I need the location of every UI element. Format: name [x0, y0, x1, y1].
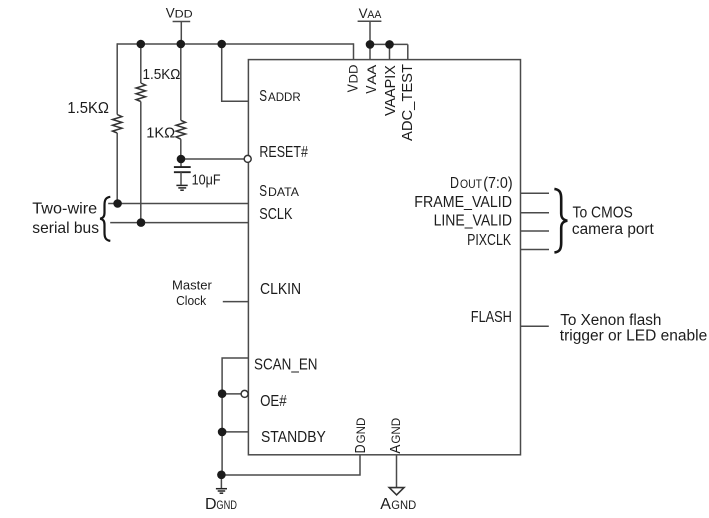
- svg-text:D: D: [450, 175, 459, 192]
- brace two-wire serial bus: [100, 197, 110, 241]
- svg-text:D: D: [352, 444, 369, 453]
- svg-text:SCLK: SCLK: [259, 206, 293, 223]
- power symbol VDD: [173, 22, 191, 45]
- net label AGND: [380, 496, 416, 513]
- svg-text:ADC_TEST: ADC_TEST: [399, 64, 416, 141]
- svg-text:GND: GND: [356, 418, 368, 444]
- wire VAA bus: [370, 43, 408, 45]
- junction dot VAA bus / VAAPIX pin: [385, 40, 394, 49]
- svg-text:STANDBY: STANDBY: [261, 429, 326, 446]
- junction dot VDD bus / R2: [137, 40, 146, 49]
- junction dot SCLK / R2: [137, 218, 146, 227]
- svg-text:Two-wire: Two-wire: [32, 201, 97, 218]
- power symbol VAA: [358, 21, 382, 44]
- resistor R2 1.5Kohm: [136, 44, 145, 223]
- junction dot VDD bus / SADDR drop: [217, 40, 226, 49]
- svg-text:DD: DD: [175, 9, 193, 21]
- wire SCLK: [110, 222, 248, 224]
- pin label SADDR: [259, 88, 300, 105]
- svg-text:camera port: camera port: [572, 221, 655, 238]
- junction dot DGND: [217, 471, 226, 480]
- svg-text:S: S: [259, 183, 267, 200]
- net label DGND: [205, 496, 237, 513]
- wire VDD bus: [117, 43, 353, 45]
- svg-text:1.5KΩ: 1.5KΩ: [143, 66, 181, 83]
- wire PIXCLK: [521, 249, 550, 251]
- wire FLASH: [521, 325, 549, 327]
- svg-text:VAAPIX: VAAPIX: [382, 65, 399, 116]
- svg-text:A: A: [387, 445, 404, 454]
- junction dot STANDBY: [218, 428, 227, 437]
- svg-text:1KΩ: 1KΩ: [146, 125, 175, 142]
- pin label SDATA: [259, 183, 299, 200]
- svg-text:OE#: OE#: [260, 393, 287, 410]
- svg-text:D: D: [205, 496, 217, 513]
- resistor R1 1.5Kohm: [113, 43, 122, 203]
- wire LINE_VALID: [521, 230, 550, 232]
- svg-text:CLKIN: CLKIN: [260, 281, 301, 298]
- svg-text:RESET#: RESET#: [259, 144, 308, 161]
- net label VDD: [166, 6, 193, 21]
- wire VAA pin drop: [369, 44, 371, 59]
- svg-text:GND: GND: [391, 498, 416, 512]
- resistor R3 1Kohm: [176, 44, 185, 159]
- junction dot OE#: [218, 389, 227, 398]
- svg-text:Master: Master: [172, 278, 213, 293]
- wire SDATA: [108, 203, 248, 205]
- svg-text:DD: DD: [349, 65, 361, 84]
- wire SADDR from VDD bus: [222, 44, 249, 101]
- svg-text:10μF: 10μF: [192, 173, 221, 189]
- svg-text:V: V: [166, 6, 175, 21]
- pin label VDD (top, rotated): [345, 65, 362, 93]
- svg-text:ADDR: ADDR: [268, 90, 301, 104]
- svg-text:(7:0): (7:0): [483, 175, 512, 192]
- svg-text:Clock: Clock: [176, 293, 207, 308]
- pin label VAAPIX (top, rotated): [382, 65, 399, 116]
- svg-text:GND: GND: [391, 418, 403, 444]
- wire VAAPIX pin drop: [389, 44, 391, 59]
- svg-text:OUT: OUT: [460, 177, 482, 191]
- ground symbol AGND (open triangle): [389, 488, 404, 495]
- ground symbol below C1: [176, 185, 187, 190]
- svg-text:AA: AA: [367, 9, 382, 21]
- wire DOUT: [521, 192, 550, 194]
- junction dot VDD bus / VDD stem: [177, 40, 186, 49]
- svg-text:FLASH: FLASH: [471, 309, 512, 326]
- svg-text:A: A: [380, 496, 391, 513]
- svg-text:SCAN_EN: SCAN_EN: [254, 356, 318, 373]
- junction dot SDATA / R1: [113, 199, 122, 208]
- svg-text:V: V: [345, 84, 362, 92]
- wire STANDBY stub: [222, 431, 248, 433]
- pin label VAA (top, rotated): [363, 64, 380, 93]
- junction dot RESET# node: [177, 155, 186, 164]
- svg-text:To CMOS: To CMOS: [573, 205, 633, 222]
- net label VAA: [359, 6, 382, 21]
- svg-text:V: V: [359, 6, 368, 21]
- pin label DOUT(7:0): [450, 175, 513, 192]
- wire ADC_TEST pin drop: [407, 44, 409, 59]
- wire CLKIN stub: [223, 301, 249, 303]
- brace CMOS camera port: [554, 189, 567, 253]
- pin label DGND (bottom, rotated): [352, 418, 369, 454]
- wire RESET# node: [181, 158, 244, 160]
- pin bubble OE#: [241, 390, 248, 397]
- svg-text:1.5KΩ: 1.5KΩ: [67, 100, 109, 117]
- capacitor C1 10uF: [174, 159, 191, 185]
- wire OE# stub: [222, 393, 241, 395]
- svg-text:LINE_VALID: LINE_VALID: [434, 213, 512, 230]
- svg-text:S: S: [259, 88, 267, 105]
- svg-text:FRAME_VALID: FRAME_VALID: [414, 194, 512, 211]
- chip U1 outline: [248, 60, 520, 455]
- svg-text:AA: AA: [367, 64, 379, 84]
- wire FRAME_VALID: [521, 212, 550, 214]
- svg-text:DATA: DATA: [268, 185, 299, 199]
- wire AGND pin: [396, 455, 398, 487]
- svg-text:serial bus: serial bus: [32, 220, 99, 237]
- svg-text:PIXCLK: PIXCLK: [467, 232, 512, 249]
- pin label ADC_TEST (top, rotated): [399, 64, 416, 141]
- ground symbol DGND: [216, 475, 227, 493]
- svg-text:V: V: [363, 86, 380, 94]
- pin bubble RESET#: [244, 155, 251, 162]
- wire SCAN_EN / OE# / STANDBY vertical: [222, 358, 248, 475]
- svg-text:GND: GND: [216, 498, 237, 512]
- wire DGND pin to ground: [221, 455, 360, 475]
- junction dot VAA bus / VAA pin: [366, 40, 375, 49]
- pin label AGND (bottom, rotated): [387, 418, 404, 454]
- wire VDD pin drop: [353, 43, 355, 59]
- svg-text:trigger or LED enable: trigger or LED enable: [560, 327, 707, 344]
